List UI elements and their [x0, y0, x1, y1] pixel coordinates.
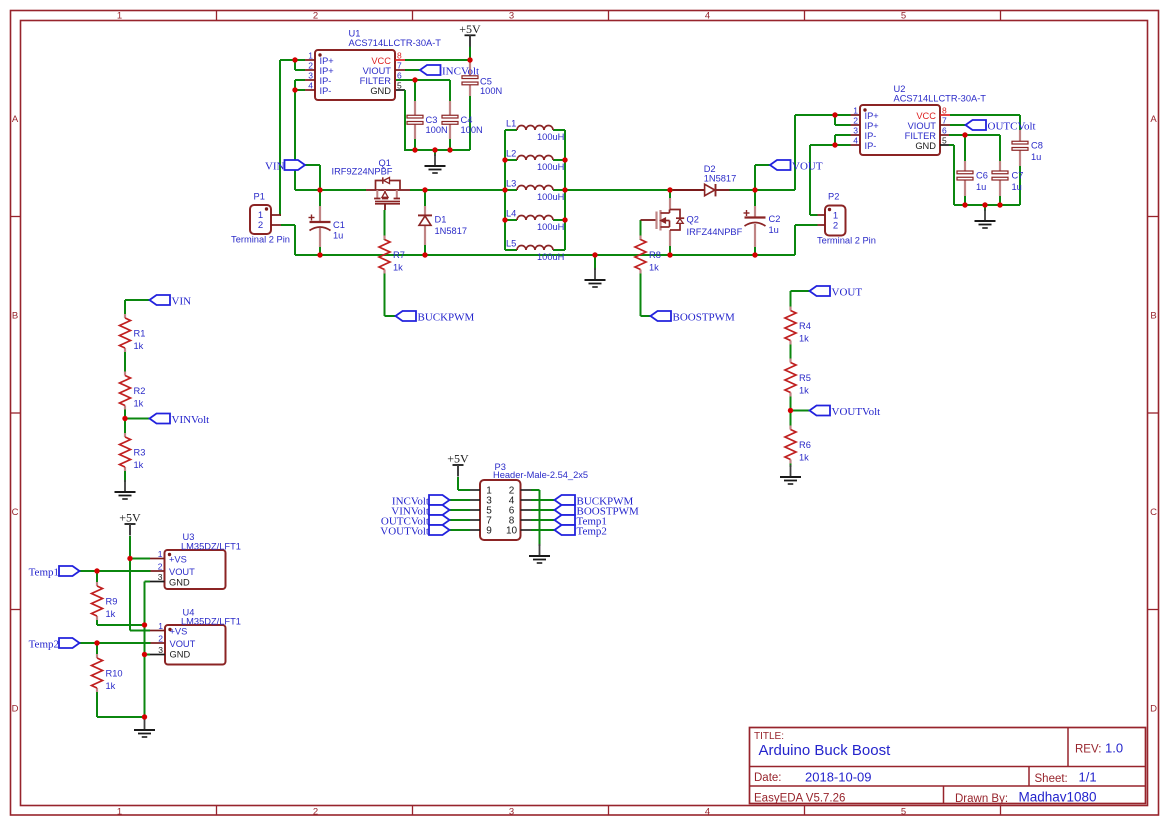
svg-text:6: 6 — [397, 71, 402, 81]
inductor L5 100uH — [506, 239, 564, 263]
svg-text:IRF9Z24NPBF: IRF9Z24NPBF — [332, 167, 393, 177]
svg-text:VOUT: VOUT — [832, 286, 863, 298]
node Temp1 at U3 — [29, 566, 80, 578]
svg-text:1k: 1k — [649, 263, 659, 273]
svg-text:100uH: 100uH — [537, 252, 564, 262]
svg-text:2: 2 — [308, 61, 313, 71]
svg-text:L1: L1 — [506, 119, 516, 129]
svg-text:2: 2 — [158, 634, 163, 644]
node BUCKPWM at P3 pin 4 — [555, 495, 634, 507]
wire U4 pin3 to gnd net — [145, 654, 151, 656]
wire C3 C4 ground rail — [404, 96, 470, 156]
capacitor C8 1u — [1012, 130, 1043, 166]
svg-text:C7: C7 — [1012, 171, 1024, 181]
svg-text:100uH: 100uH — [537, 222, 564, 232]
svg-text:C1: C1 — [333, 220, 345, 230]
svg-text:IP-: IP- — [320, 86, 332, 96]
svg-text:VOUTVolt: VOUTVolt — [380, 525, 429, 537]
svg-text:VOUTVolt: VOUTVolt — [832, 406, 881, 418]
svg-text:1k: 1k — [134, 341, 144, 351]
svg-text:A: A — [12, 114, 19, 125]
node OUTCVolt at P3 pin 7 — [381, 515, 450, 527]
svg-text:100N: 100N — [480, 86, 502, 96]
svg-text:GND: GND — [915, 141, 936, 151]
svg-text:2: 2 — [313, 10, 318, 21]
svg-text:R8: R8 — [649, 250, 661, 260]
wire R8 to BOOSTPWM flag — [641, 270, 651, 317]
svg-text:D1: D1 — [435, 215, 447, 225]
svg-text:VCC: VCC — [916, 111, 936, 121]
resistor R4 1k — [785, 307, 811, 345]
node Temp2 at U4 — [29, 638, 80, 650]
ground mid rail — [585, 268, 606, 287]
wire U1 FILTER node — [395, 80, 450, 101]
svg-text:2: 2 — [313, 807, 318, 818]
node VOUTVolt divider tap — [810, 406, 881, 418]
svg-text:Terminal 2 Pin: Terminal 2 Pin — [817, 236, 876, 246]
svg-text:4: 4 — [705, 807, 710, 818]
svg-text:3: 3 — [158, 645, 163, 655]
svg-text:1: 1 — [158, 549, 163, 559]
wire P1 pin2 to rail — [281, 225, 295, 255]
svg-text:C3: C3 — [426, 115, 438, 125]
wire Temp2 to U4 pin2 — [80, 642, 151, 644]
svg-text:L4: L4 — [506, 209, 516, 219]
wire +5V to P3 pin1 — [458, 477, 470, 490]
svg-text:P2: P2 — [828, 192, 839, 202]
svg-text:100uH: 100uH — [537, 192, 564, 202]
svg-text:TITLE:: TITLE: — [754, 731, 784, 742]
svg-text:R4: R4 — [799, 321, 811, 331]
svg-text:BUCKPWM: BUCKPWM — [418, 311, 475, 323]
resistor R7 1k — [379, 236, 405, 274]
svg-text:Madhav1080: Madhav1080 — [1019, 790, 1097, 805]
inductor L1 100uH — [506, 119, 564, 143]
svg-text:R10: R10 — [106, 669, 123, 679]
node BUCKPWM at R7 — [396, 311, 475, 323]
wire C2 taps — [754, 190, 756, 255]
node Temp2 at P3 pin 10 — [555, 525, 607, 537]
svg-text:LM35DZ/LFT1: LM35DZ/LFT1 — [181, 617, 241, 627]
svg-text:B: B — [12, 310, 18, 321]
svg-text:R5: R5 — [799, 373, 811, 383]
diode D1 1N5817 — [418, 206, 467, 245]
capacitor C1 1u — [309, 206, 345, 247]
wire Q2 gate to R8 — [640, 220, 642, 240]
temp sensor U4 LM35DZ/LFT1 — [150, 608, 241, 665]
wire U2 VCC to C8 — [950, 115, 1020, 130]
wire Q2 drain source — [669, 190, 671, 255]
svg-text:FILTER: FILTER — [905, 131, 937, 141]
wire U2 pin1 pin2 joins — [835, 115, 851, 125]
svg-text:3: 3 — [853, 126, 858, 136]
svg-text:U3: U3 — [183, 532, 195, 542]
wire P3 pin2 to ground — [531, 490, 540, 546]
wire R7 to BUCKPWM flag — [385, 270, 396, 317]
svg-text:5: 5 — [901, 807, 906, 818]
svg-text:5: 5 — [397, 81, 402, 91]
wire VIN flag to bus — [305, 165, 320, 190]
svg-text:3: 3 — [158, 572, 163, 582]
svg-text:+5V: +5V — [119, 511, 141, 525]
svg-text:1k: 1k — [393, 263, 403, 273]
svg-text:ACS714LLCTR-30A-T: ACS714LLCTR-30A-T — [349, 38, 442, 48]
svg-text:EasyEDA V5.7.26: EasyEDA V5.7.26 — [754, 793, 845, 805]
svg-text:IP+: IP+ — [320, 66, 334, 76]
svg-text:+VS: +VS — [169, 555, 187, 565]
+5V symbol top — [459, 22, 481, 47]
op-amp U2 ACS714LLCTR-30A-T — [851, 84, 987, 155]
svg-text:VINVolt: VINVolt — [172, 414, 210, 426]
svg-text:1N5817: 1N5817 — [704, 174, 737, 184]
wire C1 taps — [319, 190, 321, 255]
wire U2 FILTER to C6 C7 — [949, 135, 1000, 161]
svg-text:C: C — [1150, 507, 1157, 518]
svg-text:Temp2: Temp2 — [577, 525, 607, 537]
svg-text:1: 1 — [117, 10, 122, 21]
wire U1 GND pin down — [395, 90, 405, 150]
svg-text:Sheet:: Sheet: — [1035, 773, 1068, 785]
svg-text:2018-10-09: 2018-10-09 — [805, 770, 872, 785]
node INCVolt at P3 pin 3 — [392, 495, 450, 507]
transistor Q2 IRFZ44NPBF — [641, 198, 743, 246]
svg-text:U1: U1 — [349, 29, 361, 39]
wire U2 VIOUT to OUTCVolt — [950, 124, 966, 126]
svg-text:GND: GND — [170, 650, 191, 660]
resistor R2 1k — [120, 372, 146, 410]
svg-text:1/1: 1/1 — [1079, 770, 1097, 785]
ground C6 C7 — [975, 209, 996, 228]
svg-text:1: 1 — [117, 807, 122, 818]
svg-text:5: 5 — [901, 10, 906, 21]
svg-text:D2: D2 — [704, 164, 716, 174]
svg-text:7: 7 — [942, 116, 947, 126]
node BOOSTPWM at R8 — [651, 311, 736, 323]
svg-text:1k: 1k — [134, 460, 144, 470]
svg-text:REV:: REV: — [1075, 744, 1101, 756]
+5V symbol U3U4 — [119, 511, 141, 536]
svg-text:VOUT: VOUT — [169, 567, 195, 577]
wire VOUT ladder — [791, 291, 811, 467]
svg-text:L3: L3 — [506, 179, 516, 189]
wire Q1 gate to R7 — [384, 210, 386, 240]
svg-text:1k: 1k — [134, 399, 144, 409]
svg-text:GND: GND — [169, 578, 190, 588]
node OUTCVolt at U2 VIOUT — [966, 120, 1036, 132]
title block — [750, 728, 1146, 806]
svg-text:8: 8 — [942, 106, 947, 116]
resistor R5 1k — [785, 359, 811, 397]
svg-text:D: D — [12, 703, 19, 714]
wire U3 pin3 gnd net — [145, 582, 151, 721]
svg-text:VIOUT: VIOUT — [363, 66, 392, 76]
svg-text:B: B — [1150, 310, 1156, 321]
resistor R1 1k — [120, 314, 146, 352]
inductor L4 100uH — [506, 209, 564, 233]
wire U1 VCC to +5V rail — [405, 45, 470, 62]
svg-text:7: 7 — [397, 61, 402, 71]
resistor R10 1k — [92, 654, 123, 692]
svg-text:C: C — [12, 507, 19, 518]
wire U1 VIOUT to INCVolt flag — [405, 69, 420, 71]
svg-text:Temp1: Temp1 — [29, 566, 59, 578]
svg-text:R6: R6 — [799, 440, 811, 450]
svg-text:100uH: 100uH — [537, 132, 564, 142]
svg-text:VCC: VCC — [371, 56, 391, 66]
svg-text:R9: R9 — [106, 597, 118, 607]
svg-text:VOUT: VOUT — [170, 639, 196, 649]
node VOUTVolt at P3 pin 9 — [380, 525, 449, 537]
resistor R3 1k — [120, 433, 146, 471]
ground R3 — [115, 480, 136, 499]
svg-text:IP+: IP+ — [865, 121, 879, 131]
+5V symbol P3 — [447, 452, 469, 477]
svg-text:IP+: IP+ — [320, 56, 334, 66]
wire +5V to U3 U4 pin1 — [130, 536, 150, 631]
svg-text:C5: C5 — [480, 76, 492, 86]
wire P3 left rows — [450, 500, 471, 530]
svg-text:Terminal 2 Pin: Terminal 2 Pin — [231, 235, 290, 245]
resistor R9 1k — [92, 582, 118, 620]
svg-text:100N: 100N — [461, 125, 483, 135]
wire bottom rail — [295, 254, 795, 256]
svg-text:IP-: IP- — [320, 76, 332, 86]
svg-text:Q2: Q2 — [687, 215, 699, 225]
svg-text:1: 1 — [853, 106, 858, 116]
wire C6 C7 C8 ground rail — [954, 166, 1020, 211]
svg-text:4: 4 — [853, 136, 858, 146]
svg-text:BOOSTPWM: BOOSTPWM — [673, 311, 736, 323]
connector P2 Terminal 2 Pin — [817, 192, 876, 246]
svg-text:VOUT: VOUT — [792, 160, 823, 172]
svg-text:3: 3 — [308, 71, 313, 81]
svg-text:C6: C6 — [976, 171, 988, 181]
temp sensor U3 LM35DZ/LFT1 — [150, 532, 241, 589]
node VOUT at D2 — [770, 160, 823, 172]
svg-text:INCVolt: INCVolt — [442, 65, 479, 77]
svg-text:1.0: 1.0 — [1105, 741, 1123, 756]
svg-text:2: 2 — [853, 116, 858, 126]
ground C3 C4 — [425, 154, 446, 173]
node Temp1 at P3 pin 8 — [555, 515, 607, 527]
svg-text:L5: L5 — [506, 239, 516, 249]
svg-text:IP-: IP- — [865, 141, 877, 151]
svg-text:FILTER: FILTER — [360, 76, 392, 86]
svg-text:2: 2 — [833, 221, 838, 232]
node VINVolt divider tap — [150, 414, 210, 426]
svg-text:1k: 1k — [799, 386, 809, 396]
inductor L2 100uH — [506, 149, 564, 173]
svg-text:IRFZ44NPBF: IRFZ44NPBF — [687, 227, 743, 237]
capacitor C5 100N — [462, 62, 502, 96]
wire VOUT node to U2 pins12 — [795, 115, 835, 190]
wire VIN ladder — [125, 300, 150, 482]
svg-text:1u: 1u — [769, 225, 779, 235]
inductor L3 100uH — [506, 179, 564, 203]
ground R6 — [780, 465, 801, 484]
svg-text:1k: 1k — [106, 681, 116, 691]
wire P2 pin2 to rail — [795, 225, 818, 255]
wire VOUT flag tap — [755, 165, 770, 190]
svg-text:1N5817: 1N5817 — [435, 226, 468, 236]
svg-text:+VS: +VS — [170, 627, 188, 637]
connector P1 Terminal 2 Pin — [231, 192, 290, 245]
wire R9 branch — [97, 571, 145, 625]
capacitor C2 1u — [744, 206, 781, 247]
svg-text:IP+: IP+ — [865, 111, 879, 121]
svg-text:LM35DZ/LFT1: LM35DZ/LFT1 — [181, 542, 241, 552]
resistor R6 1k — [785, 426, 811, 464]
ground U3 U4 — [134, 718, 155, 737]
svg-text:100N: 100N — [426, 125, 448, 135]
diode D2 1N5817 — [673, 164, 736, 197]
svg-text:1u: 1u — [333, 231, 343, 241]
svg-text:R1: R1 — [134, 329, 146, 339]
svg-text:VIN: VIN — [265, 160, 285, 172]
svg-text:2: 2 — [158, 562, 163, 572]
svg-text:4: 4 — [705, 10, 710, 21]
svg-text:4: 4 — [308, 81, 313, 91]
svg-text:1k: 1k — [799, 453, 809, 463]
svg-text:D: D — [1150, 703, 1157, 714]
svg-text:1u: 1u — [976, 182, 986, 192]
svg-text:C2: C2 — [769, 214, 781, 224]
svg-text:IP-: IP- — [865, 131, 877, 141]
wire D1 taps — [424, 190, 426, 255]
node BOOSTPWM at P3 pin 6 — [555, 505, 640, 517]
svg-text:OUTCVolt: OUTCVolt — [988, 120, 1036, 132]
capacitor C7 1u — [992, 161, 1023, 196]
svg-text:C8: C8 — [1031, 141, 1043, 151]
svg-text:Date:: Date: — [754, 772, 782, 784]
svg-text:A: A — [1150, 114, 1157, 125]
svg-text:ACS714LLCTR-30A-T: ACS714LLCTR-30A-T — [894, 93, 987, 103]
svg-text:+5V: +5V — [459, 22, 481, 36]
svg-text:8: 8 — [397, 51, 402, 61]
wire U2 pin3 pin4 to P2 pin1 — [810, 135, 851, 215]
svg-text:1: 1 — [308, 51, 313, 61]
svg-text:1u: 1u — [1031, 152, 1041, 162]
svg-text:GND: GND — [370, 86, 391, 96]
node VOUT at R4 ladder — [810, 286, 863, 298]
svg-text:1: 1 — [158, 621, 163, 631]
resistor R8 1k — [635, 236, 661, 274]
wire inductor bank verticals — [505, 130, 565, 250]
svg-text:1k: 1k — [106, 609, 116, 619]
svg-text:100uH: 100uH — [537, 162, 564, 172]
wire U2 GND pin down — [949, 145, 954, 205]
svg-text:P1: P1 — [254, 192, 265, 202]
svg-text:10: 10 — [506, 526, 518, 537]
node VINVolt at P3 pin 5 — [391, 505, 449, 517]
svg-text:5: 5 — [942, 136, 947, 146]
svg-text:L2: L2 — [506, 149, 516, 159]
svg-text:VIN: VIN — [172, 295, 192, 307]
node VIN at R1 ladder — [150, 295, 192, 307]
svg-text:Drawn By:: Drawn By: — [955, 793, 1008, 805]
wire Temp1 to U3 pin2 — [80, 570, 151, 572]
svg-text:R3: R3 — [134, 448, 146, 458]
svg-text:C4: C4 — [461, 115, 473, 125]
svg-text:1u: 1u — [1012, 182, 1022, 192]
wire R10 branch — [97, 643, 145, 717]
svg-text:+5V: +5V — [447, 452, 469, 466]
node INCVolt at U1 VIOUT — [420, 65, 479, 77]
wire ground tap mid rail — [594, 255, 596, 270]
capacitor C6 1u — [957, 161, 988, 196]
connector P3 Header-Male-2.54_2x5 — [470, 462, 588, 540]
wire main bus left — [320, 189, 505, 191]
svg-text:6: 6 — [942, 126, 947, 136]
svg-text:R7: R7 — [393, 250, 405, 260]
node VIN at P1 — [265, 160, 305, 172]
svg-text:1k: 1k — [799, 334, 809, 344]
svg-text:Temp2: Temp2 — [29, 638, 59, 650]
op-amp U1 ACS714LLCTR-30A-T — [305, 29, 441, 101]
transistor Q1 IRF9Z24NPBF — [332, 158, 411, 210]
svg-text:R2: R2 — [134, 386, 146, 396]
svg-text:VIOUT: VIOUT — [908, 121, 937, 131]
svg-text:Header-Male-2.54_2x5: Header-Male-2.54_2x5 — [493, 470, 588, 480]
svg-text:3: 3 — [509, 10, 514, 21]
ground P3 — [529, 544, 550, 563]
wire U1 pin3 pin4 net down — [295, 80, 320, 190]
capacitor C3 100N — [407, 101, 448, 139]
wire P3 right rows — [531, 500, 555, 530]
svg-text:9: 9 — [486, 526, 492, 537]
svg-text:Arduino Buck Boost: Arduino Buck Boost — [759, 742, 892, 759]
capacitor C4 100N — [442, 101, 483, 139]
wire main bus right — [565, 189, 795, 191]
svg-text:2: 2 — [258, 220, 263, 231]
svg-text:3: 3 — [509, 807, 514, 818]
wire U1 pin1 pin2 net to P1 pin1 — [280, 60, 305, 215]
